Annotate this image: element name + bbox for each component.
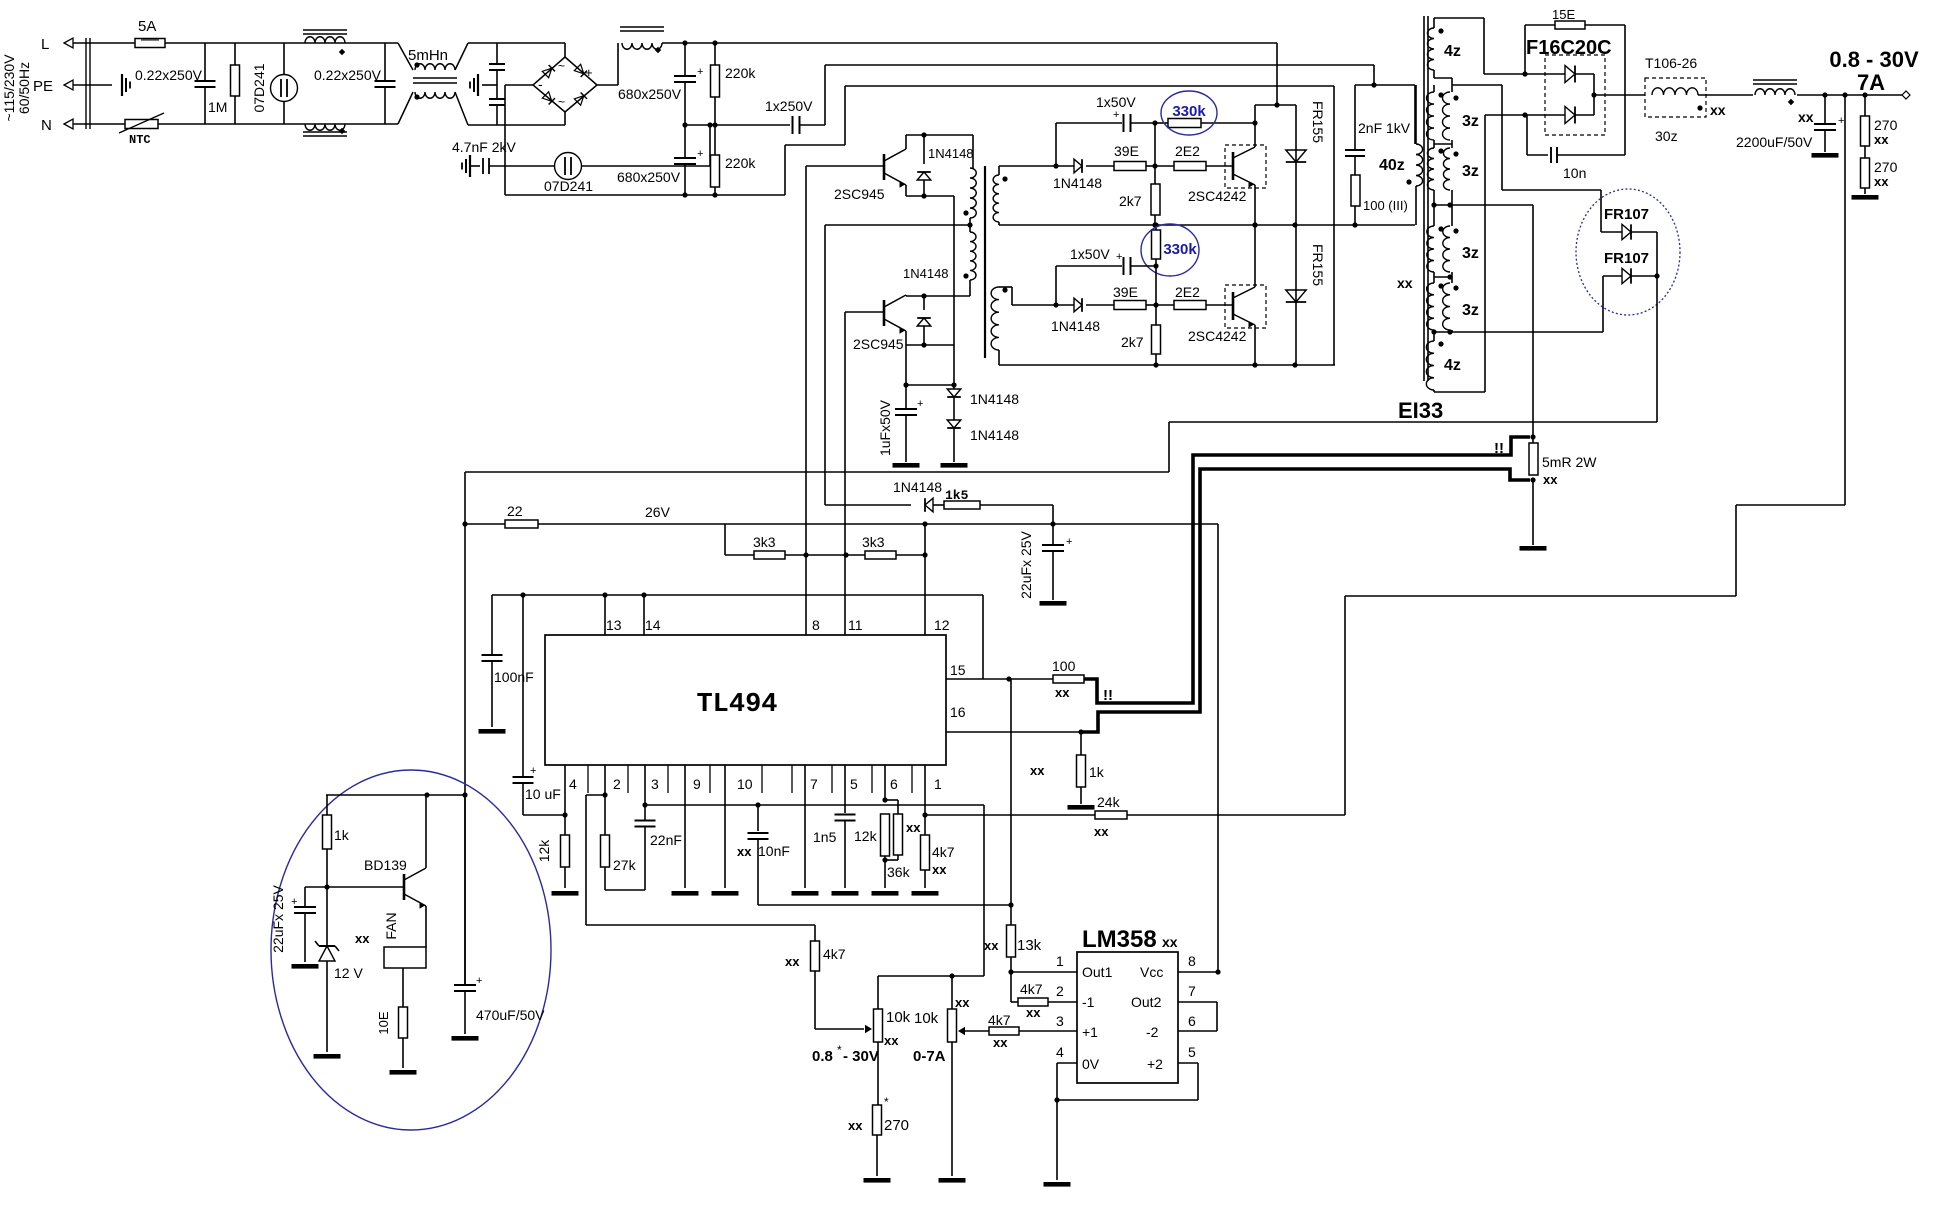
svg-text:10k: 10k: [914, 1010, 939, 1027]
svg-text:0.22x250V: 0.22x250V: [314, 67, 382, 83]
svg-text:4z: 4z: [1444, 357, 1461, 374]
svg-text:22uFx 25V: 22uFx 25V: [1018, 530, 1034, 598]
svg-text:2200uF/50V: 2200uF/50V: [1736, 134, 1813, 150]
svg-text:xx: xx: [932, 862, 947, 877]
svg-text:xx: xx: [1094, 824, 1109, 839]
svg-text:7: 7: [1188, 983, 1196, 999]
svg-text:4k7: 4k7: [932, 844, 955, 860]
svg-text:10 uF: 10 uF: [525, 786, 561, 802]
svg-text:xx: xx: [1874, 174, 1889, 189]
svg-text:5A: 5A: [138, 18, 156, 35]
svg-text:10nF: 10nF: [758, 843, 790, 859]
svg-text:TL494: TL494: [696, 690, 777, 720]
svg-text:30z: 30z: [1655, 128, 1678, 144]
svg-text:10E: 10E: [376, 1011, 391, 1034]
svg-text:12 V: 12 V: [334, 965, 363, 981]
svg-text:22uFx 25V: 22uFx 25V: [270, 884, 286, 952]
svg-text:2k7: 2k7: [1121, 334, 1144, 350]
svg-text:FR107: FR107: [1604, 250, 1649, 267]
svg-text:07D241: 07D241: [251, 63, 267, 112]
svg-text:2E2: 2E2: [1175, 143, 1200, 159]
svg-text:+: +: [917, 398, 923, 410]
svg-text:11: 11: [848, 617, 863, 633]
svg-text:L: L: [41, 36, 49, 53]
svg-text:15: 15: [950, 662, 966, 678]
svg-text:1x50V: 1x50V: [1096, 94, 1136, 110]
svg-text:+: +: [1116, 251, 1122, 263]
svg-text:+: +: [585, 65, 593, 80]
svg-text:330k: 330k: [1163, 241, 1197, 258]
svg-text:10n: 10n: [1563, 165, 1586, 181]
svg-text:xx: xx: [1710, 102, 1726, 118]
svg-text:-1: -1: [1082, 994, 1095, 1010]
svg-text:16: 16: [950, 704, 966, 720]
svg-text:xx: xx: [355, 931, 370, 946]
svg-text:4k7: 4k7: [1020, 981, 1043, 997]
svg-text:4z: 4z: [1444, 43, 1461, 60]
svg-text:220k: 220k: [725, 65, 756, 81]
svg-text:1k5: 1k5: [945, 488, 969, 503]
svg-text:5: 5: [850, 776, 858, 792]
svg-text:12: 12: [934, 617, 950, 633]
svg-text:Out1: Out1: [1082, 964, 1113, 980]
svg-text:xx: xx: [955, 995, 970, 1010]
svg-text:2: 2: [613, 776, 621, 792]
svg-text:1k: 1k: [334, 827, 350, 843]
svg-text:1n5: 1n5: [813, 829, 837, 845]
svg-text:~: ~: [558, 59, 565, 73]
svg-text:24k: 24k: [1097, 794, 1121, 810]
svg-text:1x50V: 1x50V: [1070, 246, 1110, 262]
svg-text:1N4148: 1N4148: [1051, 318, 1100, 334]
svg-text:FAN: FAN: [383, 912, 399, 939]
svg-text:N: N: [41, 117, 52, 134]
svg-text:8: 8: [1188, 953, 1196, 969]
svg-text:Out2: Out2: [1131, 994, 1162, 1010]
svg-text:0.8: 0.8: [812, 1048, 833, 1065]
svg-text:36k: 36k: [887, 864, 911, 880]
svg-text:-: -: [538, 76, 543, 92]
svg-text:26V: 26V: [645, 504, 671, 520]
svg-text:330k: 330k: [1172, 103, 1206, 120]
svg-text:1N4148: 1N4148: [970, 391, 1019, 407]
svg-text:*: *: [884, 1095, 889, 1109]
svg-text:+: +: [530, 765, 536, 777]
svg-text:FR155: FR155: [1310, 244, 1326, 286]
svg-text:60/50Hz: 60/50Hz: [16, 62, 32, 114]
svg-text:xx: xx: [884, 1033, 899, 1048]
svg-text:5mHn: 5mHn: [408, 47, 448, 64]
svg-text:+: +: [697, 148, 703, 160]
svg-text:+: +: [291, 896, 297, 908]
svg-text:3: 3: [651, 776, 659, 792]
svg-text:10: 10: [737, 776, 753, 792]
svg-text:12k: 12k: [854, 828, 878, 844]
svg-text:Vcc: Vcc: [1140, 964, 1163, 980]
svg-text:3k3: 3k3: [753, 534, 776, 550]
svg-text:+: +: [1113, 109, 1119, 121]
svg-text:680x250V: 680x250V: [617, 169, 681, 185]
svg-text:3z: 3z: [1462, 302, 1479, 319]
svg-text:xx: xx: [1026, 1005, 1041, 1020]
svg-text:1N4148: 1N4148: [928, 146, 974, 161]
svg-text:4.7nF 2kV: 4.7nF 2kV: [452, 139, 516, 155]
svg-text:07D241: 07D241: [544, 178, 593, 194]
svg-text:8: 8: [812, 617, 820, 633]
svg-text:6: 6: [1188, 1013, 1196, 1029]
svg-text:4: 4: [569, 776, 577, 792]
svg-text:1N4148: 1N4148: [903, 266, 949, 281]
svg-text:12k: 12k: [536, 839, 552, 863]
svg-text:0.8 - 30V: 0.8 - 30V: [1829, 47, 1919, 72]
svg-text:1: 1: [1056, 953, 1064, 969]
svg-text:+1: +1: [1082, 1024, 1098, 1040]
svg-text:13k: 13k: [1017, 937, 1042, 954]
svg-text:40z: 40z: [1379, 157, 1405, 174]
svg-text:3z: 3z: [1462, 245, 1479, 262]
svg-text:5mR 2W: 5mR 2W: [1542, 454, 1597, 470]
svg-text:680x250V: 680x250V: [618, 86, 682, 102]
svg-text:100: 100: [1052, 658, 1076, 674]
svg-text:xx: xx: [906, 820, 921, 835]
svg-text:4: 4: [1056, 1044, 1064, 1060]
svg-text:1N4148: 1N4148: [970, 427, 1019, 443]
svg-text:4k7: 4k7: [988, 1012, 1011, 1028]
svg-text:xx: xx: [1798, 109, 1814, 125]
svg-text:+: +: [476, 975, 482, 987]
svg-text:~115/230V: ~115/230V: [1, 54, 17, 122]
svg-text:1: 1: [934, 776, 942, 792]
svg-text:0V: 0V: [1082, 1056, 1100, 1072]
svg-text:FR107: FR107: [1604, 206, 1649, 223]
svg-text:xx: xx: [1030, 763, 1045, 778]
svg-text:LM358: LM358: [1082, 926, 1157, 953]
svg-text:7A: 7A: [1857, 70, 1885, 95]
svg-text:xx: xx: [993, 1035, 1008, 1050]
svg-text:1uFx50V: 1uFx50V: [877, 399, 893, 456]
svg-text:270: 270: [884, 1117, 909, 1134]
svg-text:1k: 1k: [1089, 764, 1105, 780]
svg-text:~: ~: [558, 95, 565, 109]
svg-text:7: 7: [810, 776, 818, 792]
svg-text:2SC4242: 2SC4242: [1188, 188, 1247, 204]
svg-text:5: 5: [1188, 1044, 1196, 1060]
svg-text:22: 22: [507, 503, 523, 519]
svg-text:+: +: [697, 66, 703, 78]
svg-text:xx: xx: [1543, 472, 1558, 487]
svg-text:220k: 220k: [725, 155, 756, 171]
svg-text:3k3: 3k3: [862, 534, 885, 550]
svg-text:2SC945: 2SC945: [834, 186, 885, 202]
svg-text:9: 9: [693, 776, 701, 792]
svg-text:0.22x250V: 0.22x250V: [135, 67, 203, 83]
svg-text:2nF 1kV: 2nF 1kV: [1358, 120, 1411, 136]
svg-text:+: +: [1838, 115, 1844, 127]
svg-text:1x250V: 1x250V: [765, 98, 813, 114]
svg-text:xx: xx: [1397, 275, 1413, 291]
svg-text:xx: xx: [848, 1118, 863, 1133]
svg-text:2SC4242: 2SC4242: [1188, 328, 1247, 344]
svg-text:xx: xx: [1874, 132, 1889, 147]
svg-text:PE: PE: [33, 78, 53, 95]
svg-text:470uF/50V: 470uF/50V: [476, 1007, 545, 1023]
svg-text:xx: xx: [1055, 685, 1070, 700]
svg-text:100 (III): 100 (III): [1363, 198, 1408, 213]
svg-text:6: 6: [890, 776, 898, 792]
svg-text:3: 3: [1056, 1013, 1064, 1029]
svg-text:14: 14: [645, 617, 661, 633]
svg-text:xx: xx: [785, 954, 800, 969]
svg-text:2: 2: [1056, 983, 1064, 999]
svg-text:1N4148: 1N4148: [893, 479, 942, 495]
svg-text:13: 13: [606, 617, 622, 633]
svg-text:3z: 3z: [1462, 163, 1479, 180]
svg-text:F16C20C: F16C20C: [1526, 37, 1612, 59]
svg-text:22nF: 22nF: [650, 832, 682, 848]
svg-text:2E2: 2E2: [1175, 284, 1200, 300]
svg-text:10k: 10k: [886, 1009, 911, 1026]
svg-text:39E: 39E: [1113, 284, 1138, 300]
svg-text:27k: 27k: [613, 857, 637, 873]
svg-text:0-7A: 0-7A: [913, 1048, 946, 1065]
svg-text:+: +: [1066, 536, 1072, 548]
svg-text:15E: 15E: [1552, 7, 1575, 22]
svg-text:100nF: 100nF: [494, 669, 534, 685]
svg-text:- 30V: - 30V: [843, 1048, 879, 1065]
svg-text:EI33: EI33: [1398, 398, 1443, 423]
svg-text:270: 270: [1874, 159, 1898, 175]
svg-text:T106-26: T106-26: [1645, 55, 1697, 71]
svg-text:2SC945: 2SC945: [853, 336, 904, 352]
svg-text:2k7: 2k7: [1119, 193, 1142, 209]
svg-text:xx: xx: [1162, 934, 1178, 950]
svg-text:xx: xx: [737, 844, 752, 859]
svg-text:4k7: 4k7: [823, 946, 846, 962]
svg-text:NTC: NTC: [129, 133, 151, 147]
svg-text:BD139: BD139: [364, 857, 407, 873]
svg-text:-2: -2: [1146, 1024, 1159, 1040]
svg-text:xx: xx: [984, 938, 999, 953]
svg-text:270: 270: [1874, 117, 1898, 133]
svg-text:*: *: [837, 1043, 842, 1057]
svg-text:FR155: FR155: [1310, 101, 1326, 143]
svg-text:1M: 1M: [208, 99, 227, 115]
svg-text:!!: !!: [1103, 687, 1113, 704]
svg-text:39E: 39E: [1114, 143, 1139, 159]
svg-text:1N4148: 1N4148: [1053, 175, 1102, 191]
svg-text:+2: +2: [1147, 1056, 1163, 1072]
svg-text:3z: 3z: [1462, 113, 1479, 130]
